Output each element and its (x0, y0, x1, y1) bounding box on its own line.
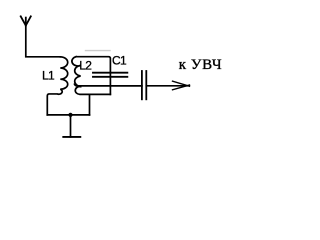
inductor L1 (47, 57, 67, 115)
inductor L2 terminal curl (75, 87, 110, 95)
inductor L2 (72, 57, 81, 87)
antenna (21, 16, 31, 25)
ground (63, 115, 80, 137)
wire to UHF with arrow (146, 81, 189, 90)
coupling capacitor (142, 71, 146, 99)
svg-text:L1: L1 (42, 69, 55, 83)
svg-text:L2: L2 (79, 59, 92, 73)
capacitor C1 (93, 73, 127, 77)
svg-text:к УВЧ: к УВЧ (179, 57, 222, 73)
wire right riser (89, 94, 91, 114)
wire antenna stem and lead to L1 (26, 25, 60, 57)
scan smudge above top wire (86, 50, 111, 52)
wire bottom rail (47, 114, 89, 116)
wire L2 top to C1 (76, 57, 110, 95)
svg-text:C1: C1 (112, 54, 127, 68)
node junction dot (68, 113, 72, 117)
wire output tap (75, 84, 142, 86)
